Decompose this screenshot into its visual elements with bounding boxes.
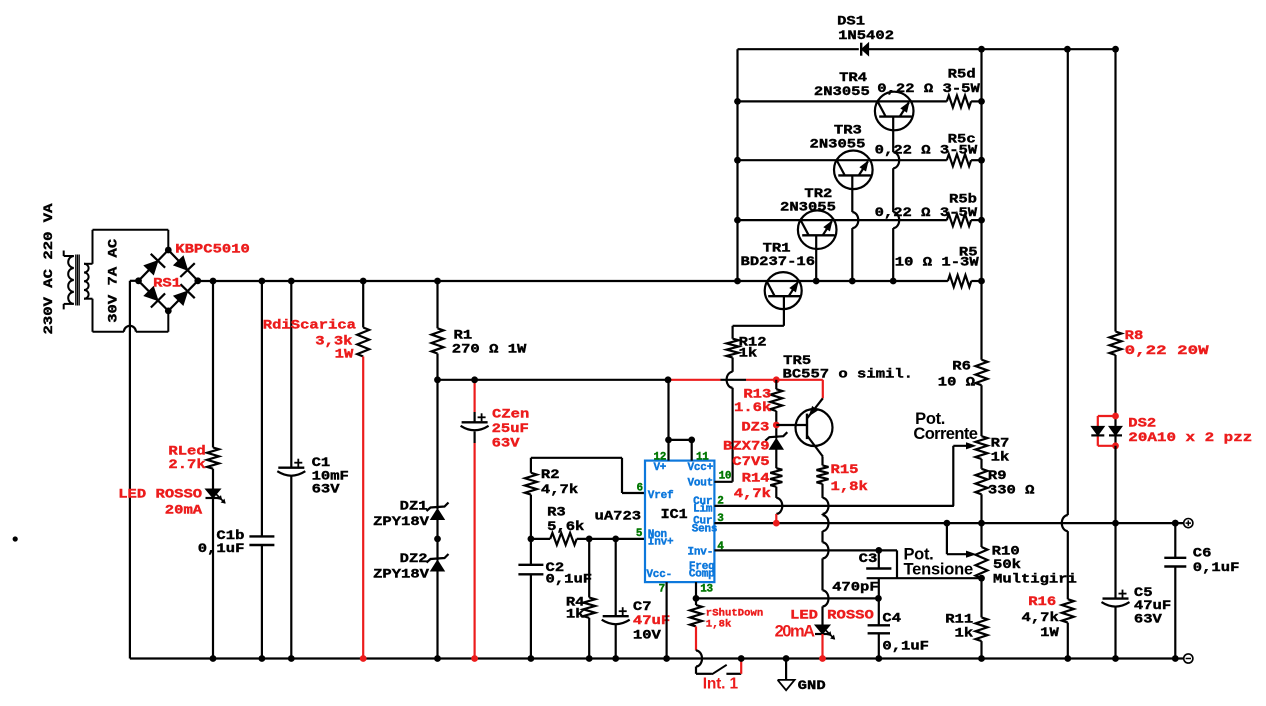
- svg-text:Vout: Vout: [688, 477, 714, 489]
- svg-text:2N3055: 2N3055: [780, 200, 836, 215]
- svg-text:0,1uF: 0,1uF: [546, 572, 593, 587]
- svg-text:2: 2: [717, 495, 724, 507]
- svg-text:R2: R2: [541, 467, 560, 482]
- svg-text:DS1: DS1: [837, 13, 865, 28]
- svg-text:LED ROSSO: LED ROSSO: [118, 487, 202, 502]
- svg-text:R1: R1: [454, 327, 473, 342]
- svg-text:TR3: TR3: [834, 123, 862, 138]
- svg-text:R5b: R5b: [949, 192, 977, 207]
- svg-text:1,8k: 1,8k: [706, 618, 732, 630]
- svg-text:RdiScarica: RdiScarica: [263, 317, 356, 332]
- svg-text:LED: LED: [790, 608, 818, 623]
- svg-text:2.7k: 2.7k: [168, 457, 206, 472]
- svg-text:5: 5: [636, 528, 643, 540]
- svg-text:ZPY18V: ZPY18V: [373, 514, 429, 529]
- svg-text:20mA: 20mA: [165, 502, 203, 517]
- svg-text:20mA: 20mA: [775, 623, 816, 641]
- svg-text:4: 4: [717, 541, 724, 553]
- svg-text:3: 3: [717, 513, 724, 525]
- svg-text:R11: R11: [945, 612, 973, 627]
- svg-text:C7: C7: [633, 599, 652, 614]
- svg-text:270 Ω 1W: 270 Ω 1W: [452, 342, 527, 357]
- svg-text:R6: R6: [952, 358, 971, 373]
- svg-text:RLed: RLed: [168, 443, 205, 458]
- svg-text:Int. 1: Int. 1: [703, 676, 739, 693]
- svg-text:2N3055: 2N3055: [814, 84, 870, 99]
- svg-text:0,22 Ω 3-5W: 0,22 Ω 3-5W: [877, 81, 980, 96]
- svg-text:0,22 Ω 3-5W: 0,22 Ω 3-5W: [875, 205, 978, 220]
- svg-text:7: 7: [659, 583, 666, 595]
- svg-text:1W: 1W: [1040, 625, 1059, 640]
- svg-text:R5: R5: [959, 245, 978, 260]
- svg-text:330 Ω: 330 Ω: [988, 483, 1035, 498]
- svg-text:10 Ω: 10 Ω: [938, 374, 976, 389]
- svg-text:0,1uF: 0,1uF: [882, 639, 929, 654]
- svg-text:63V: 63V: [312, 481, 340, 496]
- svg-text:6: 6: [637, 483, 644, 495]
- svg-text:Vcc-: Vcc-: [646, 569, 672, 581]
- svg-text:10V: 10V: [633, 627, 661, 642]
- svg-text:BZX79: BZX79: [723, 439, 770, 454]
- svg-text:R7: R7: [991, 435, 1010, 450]
- svg-text:11: 11: [696, 451, 709, 463]
- svg-text:RS1: RS1: [153, 275, 181, 290]
- svg-text:R15: R15: [831, 462, 859, 477]
- svg-text:Inv-: Inv-: [688, 547, 714, 559]
- svg-text:1W: 1W: [335, 347, 354, 362]
- svg-text:R16: R16: [1028, 594, 1056, 609]
- svg-text:1N5402: 1N5402: [838, 28, 894, 43]
- svg-text:50k: 50k: [993, 557, 1021, 572]
- svg-text:2N3055: 2N3055: [810, 137, 866, 152]
- svg-text:1.6k: 1.6k: [734, 400, 772, 415]
- svg-text:BC557 o simil.: BC557 o simil.: [783, 367, 913, 382]
- svg-text:470pF: 470pF: [832, 580, 879, 595]
- svg-text:Sens: Sens: [692, 523, 718, 535]
- svg-text:DZ3: DZ3: [741, 420, 769, 435]
- svg-text:KBPC5010: KBPC5010: [175, 241, 250, 256]
- svg-text:Corrente: Corrente: [913, 425, 978, 443]
- svg-text:0,1uF: 0,1uF: [198, 541, 245, 556]
- svg-text:IC1: IC1: [661, 507, 688, 523]
- svg-text:R3: R3: [547, 504, 566, 519]
- svg-text:TR2: TR2: [804, 186, 832, 201]
- svg-text:Lim: Lim: [693, 504, 713, 516]
- svg-text:25uF: 25uF: [492, 421, 530, 436]
- svg-text:30V 7A AC: 30V 7A AC: [106, 239, 121, 323]
- svg-text:R5c: R5c: [948, 132, 976, 147]
- svg-text:12: 12: [654, 451, 667, 463]
- svg-text:5,6k: 5,6k: [547, 519, 585, 534]
- svg-text:Vref: Vref: [648, 490, 674, 502]
- svg-text:DZ2: DZ2: [400, 551, 428, 566]
- svg-text:C4: C4: [882, 610, 901, 625]
- svg-text:63V: 63V: [492, 436, 520, 451]
- svg-text:63V: 63V: [1134, 611, 1162, 626]
- svg-text:1k: 1k: [739, 346, 758, 361]
- svg-text:DS2: DS2: [1128, 416, 1156, 431]
- svg-text:CZen: CZen: [492, 407, 530, 422]
- svg-text:10: 10: [719, 471, 732, 483]
- svg-text:R8: R8: [1125, 328, 1144, 343]
- svg-text:ROSSO: ROSSO: [827, 608, 874, 623]
- svg-text:Inv+: Inv+: [648, 537, 674, 549]
- svg-text:TR4: TR4: [839, 70, 867, 85]
- svg-text:47uF: 47uF: [633, 613, 671, 628]
- svg-text:Comp: Comp: [689, 569, 715, 581]
- svg-text:R14: R14: [742, 471, 770, 486]
- svg-text:R9: R9: [988, 468, 1007, 483]
- svg-text:C7V5: C7V5: [732, 454, 770, 469]
- svg-text:BD237-16: BD237-16: [741, 254, 816, 269]
- svg-text:DZ1: DZ1: [400, 499, 428, 514]
- svg-text:C6: C6: [1193, 545, 1212, 560]
- svg-text:4,7k: 4,7k: [541, 482, 579, 497]
- svg-text:1k: 1k: [991, 450, 1010, 465]
- svg-text:0,22 20W: 0,22 20W: [1125, 343, 1209, 358]
- svg-text:1,8k: 1,8k: [831, 479, 869, 494]
- svg-text:13: 13: [700, 583, 713, 595]
- svg-text:0,1uF: 0,1uF: [1193, 560, 1240, 575]
- svg-text:1k: 1k: [566, 607, 585, 622]
- svg-text:V+: V+: [654, 462, 667, 474]
- svg-text:1k: 1k: [955, 625, 974, 640]
- svg-text:GND: GND: [798, 678, 826, 693]
- svg-text:20A10 x 2 pzz: 20A10 x 2 pzz: [1128, 430, 1252, 445]
- svg-text:4,7k: 4,7k: [1022, 610, 1060, 625]
- svg-text:Tensione: Tensione: [904, 561, 974, 579]
- svg-text:Vcc+: Vcc+: [688, 462, 714, 474]
- svg-text:Multigiri: Multigiri: [993, 571, 1077, 586]
- svg-text:uA723: uA723: [595, 509, 642, 524]
- svg-text:R5d: R5d: [948, 67, 976, 82]
- svg-text:230V AC 220 VA: 230V AC 220 VA: [41, 203, 56, 334]
- svg-text:ZPY18V: ZPY18V: [373, 567, 429, 582]
- svg-text:4,7k: 4,7k: [734, 486, 772, 501]
- svg-text:C3: C3: [859, 551, 878, 566]
